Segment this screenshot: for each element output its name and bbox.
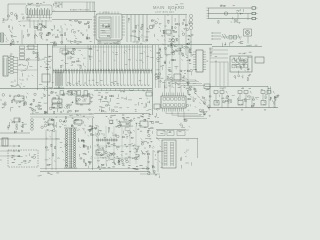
svg-text:LXXT BXN 4RX: LXXT BXN 4RX (155, 11, 174, 14)
svg-text:BOARD: BOARD (168, 5, 184, 10)
svg-text:IC201: IC201 (103, 12, 109, 14)
svg-text:BOARD PROCESS: BOARD PROCESS (70, 9, 90, 12)
svg-text:CN1: CN1 (36, 6, 40, 8)
svg-text:MAIN: MAIN (153, 5, 165, 10)
